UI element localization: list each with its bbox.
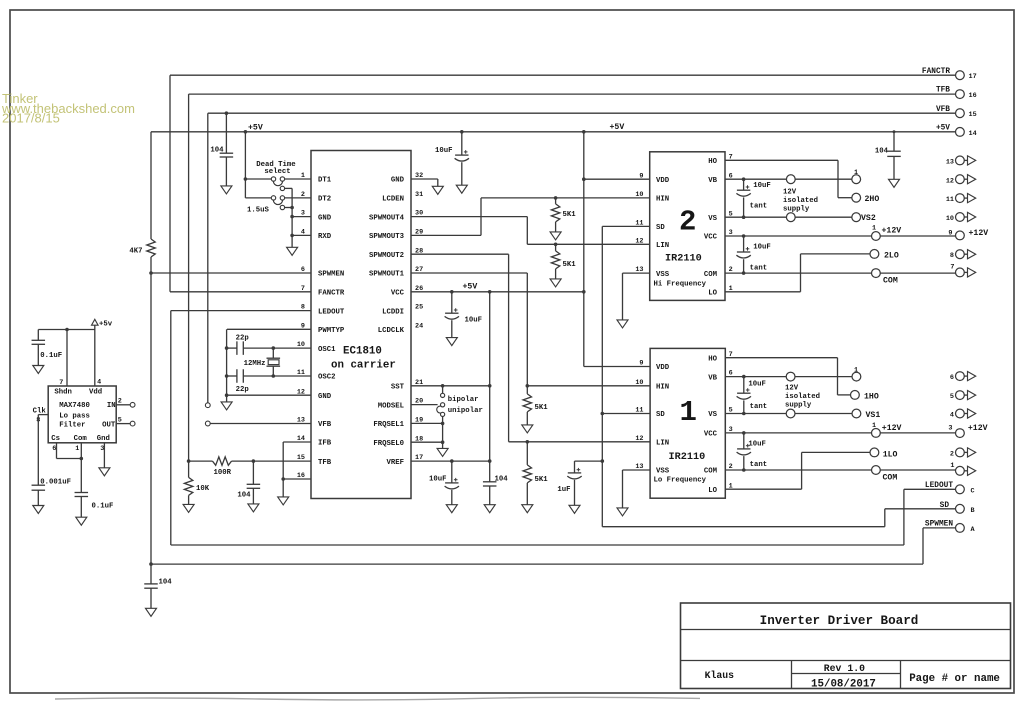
watermark Tinker www.thebackshed.com 2017/8/15	[1, 91, 135, 125]
wire VSS1 to ground	[623, 470, 651, 508]
svg-text:Inverter Driver Board: Inverter Driver Board	[760, 614, 919, 628]
wire DT1 common stub	[284, 187, 292, 189]
terminal 8 circle with no-connect arrow	[956, 250, 976, 259]
wire SPWMEN cap to ground	[150, 588, 152, 608]
svg-text:1HO: 1HO	[864, 392, 879, 401]
svg-text:1: 1	[680, 396, 697, 429]
wire 5K1 HIN1 stub	[526, 386, 528, 394]
IR2110 1 pin 3 VCC labels	[704, 426, 733, 439]
IC U3 IR2110 body	[650, 348, 725, 498]
IC U1 EC1810 body	[311, 151, 411, 499]
switch mode select bipolar/unipolar	[437, 386, 445, 449]
junction VS1 cap	[742, 412, 746, 416]
svg-text:10: 10	[635, 191, 643, 199]
svg-text:0.1uF: 0.1uF	[40, 352, 62, 360]
wire 5K1 LIN2 stub	[555, 244, 557, 251]
EC1810 pin 6 SPWMEN labels	[301, 266, 344, 279]
svg-text:6: 6	[950, 374, 954, 382]
label tant VCC2	[750, 264, 768, 272]
svg-text:5K1: 5K1	[535, 476, 549, 484]
label terminal 14	[969, 130, 977, 138]
svg-text:Klaus: Klaus	[705, 670, 735, 681]
junction LIN1 pulldown	[526, 440, 530, 444]
wire FRQSEL0 row	[411, 441, 443, 443]
svg-text:2HO: 2HO	[865, 195, 880, 204]
junction OSC2 left	[225, 374, 229, 378]
terminal 12 circle with no-connect arrow	[956, 175, 976, 184]
label terminal 1	[950, 462, 954, 470]
junction VCC SST vertical	[488, 290, 492, 294]
junction SPWMEN bottom rail	[149, 562, 153, 566]
junction SD 1uF branch	[601, 459, 605, 463]
junction +5V 10uF cap	[460, 130, 464, 134]
label 4K7	[129, 247, 142, 255]
junction VFB filter cap	[225, 111, 229, 115]
svg-text:Hi Frequency: Hi Frequency	[654, 281, 707, 289]
IR2110 2 pin 5 VS labels	[708, 210, 732, 223]
EC1810 pin 30 SPWMOUT4 labels	[369, 210, 423, 223]
svg-text:6: 6	[52, 445, 56, 453]
terminal 15 circle	[956, 109, 965, 118]
EC1810 pin 14 IFB labels	[297, 435, 332, 448]
IR2110 2 pin 13 VSS labels	[635, 266, 669, 279]
EC1810 pin 12 GND labels	[297, 388, 332, 401]
label 12V isolated supply 1	[785, 384, 820, 409]
svg-text:10: 10	[635, 379, 643, 387]
svg-text:2: 2	[301, 191, 305, 199]
svg-text:1: 1	[75, 445, 79, 453]
capacitor 0.1uF top left	[32, 340, 46, 344]
wire TFB cap branch	[252, 461, 254, 504]
IR2110 2 pin 1 LO labels	[708, 285, 732, 298]
svg-text:2: 2	[679, 206, 696, 239]
svg-text:Com: Com	[74, 435, 88, 443]
svg-text:2LO: 2LO	[884, 251, 899, 260]
svg-text:2017/8/15: 2017/8/15	[2, 110, 60, 125]
svg-text:DT2: DT2	[318, 196, 331, 204]
svg-text:12: 12	[946, 177, 954, 185]
svg-text:SPWMOUT3: SPWMOUT3	[369, 233, 405, 241]
label 10uF VREF cap	[429, 475, 447, 483]
ground 0.001uF	[33, 506, 44, 514]
IR2110 2 pin 7 HO labels	[708, 153, 732, 166]
svg-text:LIN: LIN	[656, 242, 669, 250]
svg-text:7: 7	[950, 263, 954, 271]
svg-text:VB: VB	[708, 177, 717, 185]
label FANCTR at terminal 17	[922, 68, 950, 76]
svg-text:9: 9	[639, 360, 643, 368]
label Filter	[59, 421, 85, 429]
IR2110 2 pin 9 VDD labels	[639, 172, 669, 185]
svg-text:tant: tant	[750, 203, 768, 211]
wire net HO1 to 1HO	[725, 358, 850, 395]
svg-text:GND: GND	[318, 393, 332, 401]
wire OSC1 row	[227, 347, 311, 349]
wire +5V 10uF branch	[461, 132, 463, 185]
svg-text:16: 16	[969, 92, 977, 100]
title block frame	[681, 603, 1011, 689]
svg-text:10uF: 10uF	[465, 317, 483, 325]
junction VREF 10uF	[450, 459, 454, 463]
svg-text:10uF: 10uF	[429, 475, 447, 483]
EC1810 pin 20 MODSEL labels	[378, 398, 423, 411]
label terminal 11	[946, 196, 954, 204]
svg-text:1.5uS: 1.5uS	[247, 207, 270, 215]
IR2110 2 pin 11 SD labels	[635, 220, 665, 233]
junction VCC 10uF	[450, 290, 454, 294]
junction VCC EC1810 +5V	[582, 290, 586, 294]
wire +5V cap branch right	[893, 132, 895, 180]
svg-text:VFB: VFB	[936, 106, 950, 114]
label IR2110 lo	[669, 452, 706, 463]
terminal 3 circle	[956, 429, 965, 438]
terminal 6 circle with no-connect arrow	[956, 372, 976, 381]
ground TFB cap	[248, 504, 259, 512]
label terminal 10	[946, 215, 954, 223]
wire Shdn stub	[66, 330, 68, 387]
wire COM2 row	[725, 272, 956, 274]
ground 0.1uF Com	[76, 517, 87, 525]
label 12V isolated supply 2	[783, 189, 818, 214]
label 100R	[214, 469, 232, 477]
svg-text:MODSEL: MODSEL	[378, 402, 404, 410]
junction COM2 cap	[742, 271, 746, 275]
junction +5V dead-time feed	[244, 130, 248, 134]
label MAX7480	[59, 402, 90, 410]
svg-text:Lo pass: Lo pass	[59, 413, 90, 421]
junction TFB filter cap	[252, 459, 256, 463]
svg-text:11: 11	[946, 196, 954, 204]
svg-text:COM: COM	[704, 468, 718, 476]
resistor 5K1 HIN2	[551, 204, 559, 222]
EC1810 pin 13 VFB labels	[297, 417, 332, 430]
terminal 11 circle with no-connect arrow	[956, 194, 976, 203]
wire 5K1 LIN2 ground stub	[555, 269, 557, 279]
wire GND pin32 stub	[411, 179, 438, 186]
capacitor 10uF tant VCC1	[737, 433, 751, 470]
wire net SPWMOUT2 to LIN1	[411, 254, 650, 442]
svg-text:RXD: RXD	[318, 233, 332, 241]
svg-text:4K7: 4K7	[129, 247, 142, 255]
svg-text:17: 17	[969, 73, 977, 81]
svg-text:VSS: VSS	[656, 271, 670, 279]
wire SST row	[411, 385, 490, 387]
ground 1uF	[569, 505, 580, 513]
ground SPWMEN cap	[146, 608, 157, 616]
svg-text:HIN: HIN	[656, 384, 669, 392]
svg-text:IR2110: IR2110	[665, 254, 702, 265]
IR2110 2 pin 2 COM labels	[704, 266, 733, 279]
svg-text:SPWMEN: SPWMEN	[925, 521, 953, 529]
wire net SPWMOUT4 to LIN2	[411, 217, 650, 245]
svg-text:22p: 22p	[236, 335, 250, 343]
scan artifact squiggle bottom	[55, 697, 700, 700]
junction FRQSEL1	[441, 422, 445, 426]
wire VREF row	[411, 460, 490, 462]
svg-text:5: 5	[118, 417, 122, 425]
label Com	[74, 435, 88, 443]
EC1810 pin 2 DT2 labels	[301, 191, 331, 204]
svg-text:SD: SD	[656, 411, 665, 419]
wire net +12V lo	[725, 432, 955, 434]
wire net LO1 to 1LO	[725, 452, 870, 489]
EC1810 pin 7 FANCTR labels	[301, 285, 345, 298]
label terminal 12	[946, 177, 954, 185]
wire 5K1 HIN2 stub	[555, 198, 557, 204]
label select	[264, 168, 290, 176]
svg-text:FANCTR: FANCTR	[318, 290, 345, 298]
label 1 above VB1 pin	[854, 367, 858, 375]
label +12V hi	[882, 227, 902, 236]
svg-text:10uF: 10uF	[435, 147, 453, 155]
ground 10K	[183, 504, 194, 512]
label 10uF VCC2	[753, 244, 771, 252]
label 104 VREF cap	[495, 475, 509, 483]
svg-text:9: 9	[639, 172, 643, 180]
svg-text:5K1: 5K1	[535, 404, 549, 412]
EC1810 pin 11 OSC2 labels	[297, 369, 336, 382]
junction HIN2 pulldown	[554, 196, 558, 200]
svg-text:GND: GND	[318, 214, 332, 222]
label 10K	[196, 485, 210, 493]
svg-text:FRQSEL1: FRQSEL1	[373, 421, 404, 429]
svg-text:COM: COM	[704, 271, 718, 279]
label 5K1 HIN2	[563, 211, 577, 219]
label MAX7480 pin4	[97, 379, 101, 387]
svg-text:VREF: VREF	[386, 459, 404, 467]
svg-text:COM: COM	[883, 474, 898, 483]
label IN	[107, 402, 116, 410]
label bipolar	[448, 396, 479, 404]
wire 5K1 HIN2 ground stub	[555, 222, 557, 232]
label MAX pin8	[36, 416, 40, 424]
svg-text:+12V: +12V	[882, 227, 902, 236]
svg-text:SST: SST	[391, 384, 405, 392]
svg-text:COM: COM	[883, 277, 898, 286]
svg-text:TFB: TFB	[936, 87, 950, 95]
wire MAX OUT pin5 stub	[116, 423, 130, 425]
junction SD1 row	[601, 412, 605, 416]
svg-text:+12V: +12V	[968, 424, 988, 433]
svg-text:LEDOUT: LEDOUT	[925, 482, 953, 490]
resistor 100R	[213, 457, 232, 465]
label 10uF VCC cap	[465, 317, 483, 325]
svg-text:2: 2	[118, 398, 122, 406]
switch dead-time DT1 contacts	[271, 177, 284, 191]
label Dead Time	[256, 161, 296, 169]
ground IFB pin16	[278, 497, 289, 505]
wire MAX IN pin2 stub	[116, 404, 130, 406]
EC1810 pin 9 PWMTYP labels	[301, 322, 345, 335]
capacitor 104 +5V right	[887, 151, 901, 156]
label 0.1uF top left	[40, 352, 62, 360]
wire +5V main vertical to IR2110s	[584, 132, 650, 367]
svg-text:104: 104	[875, 148, 889, 156]
svg-text:+5V: +5V	[610, 123, 625, 132]
svg-text:10uF: 10uF	[748, 440, 766, 448]
terminal 17 circle	[956, 71, 965, 80]
wire FRQSEL1 row	[411, 422, 443, 424]
svg-text:supply: supply	[783, 206, 810, 214]
svg-text:100R: 100R	[214, 469, 232, 477]
wire net SPWMOUT1 to HIN1	[411, 273, 650, 386]
wire GND pin12 row	[227, 394, 311, 396]
connector COM2 circle	[872, 269, 881, 278]
label SPWMEN at terminal A	[925, 521, 953, 529]
capacitor 10uF tant VREF	[445, 478, 459, 489]
svg-text:VS1: VS1	[866, 411, 881, 420]
connector 2HO circle	[852, 193, 861, 202]
label 1 above +12V lo	[872, 422, 876, 430]
wire 4K7 to SPWMEN rail	[150, 257, 152, 584]
svg-text:24: 24	[415, 323, 423, 331]
svg-text:12V: 12V	[783, 189, 797, 197]
capacitor 22p OSC1	[237, 341, 243, 355]
svg-text:Gnd: Gnd	[97, 435, 110, 443]
svg-text:FANCTR: FANCTR	[922, 68, 950, 76]
capacitor 10uF tant VCC2	[736, 236, 750, 273]
terminal 9 circle	[956, 231, 965, 240]
IR2110 1 pin 7 HO labels	[708, 351, 732, 364]
label tant VB1	[750, 403, 768, 411]
svg-text:Cs: Cs	[51, 435, 60, 443]
terminal C circle	[956, 485, 965, 494]
svg-text:VB: VB	[708, 374, 717, 382]
EC1810 pin 29 SPWMOUT3 labels	[369, 229, 423, 242]
label +5V top centre	[248, 123, 263, 132]
label Klaus	[705, 670, 735, 681]
wire MODSEL row	[411, 404, 438, 406]
svg-text:EC1810: EC1810	[343, 345, 382, 357]
label 5K1 HIN1	[535, 404, 549, 412]
junction VCC1 cap	[742, 431, 746, 435]
junction HIN1 pulldown	[526, 384, 530, 388]
svg-text:tant: tant	[750, 461, 768, 469]
wire VSS2 to ground	[623, 273, 650, 320]
svg-text:select: select	[264, 168, 290, 176]
connector +12V hi circle	[872, 232, 881, 241]
svg-text:HO: HO	[708, 158, 717, 166]
label MAX pin2	[118, 398, 122, 406]
label 1 above +12V hi	[872, 225, 876, 233]
connector 12V supply VB2 circle	[786, 175, 795, 184]
wire VFB cap branch	[225, 113, 227, 186]
ground 0.1uF top left	[33, 366, 44, 374]
svg-text:MAX7480: MAX7480	[59, 402, 90, 410]
wire SPWMEN row	[151, 272, 311, 274]
svg-text:VSS: VSS	[656, 468, 670, 476]
svg-text:104: 104	[210, 146, 224, 154]
label MAX pin5	[118, 417, 122, 425]
terminal 16 circle	[956, 90, 965, 99]
junction SST mode switch	[441, 384, 445, 388]
svg-text:1: 1	[301, 172, 305, 180]
ground 5K1 LIN1	[522, 505, 533, 513]
EC1810 pin 18 FRQSEL0 labels	[373, 435, 423, 448]
label Gnd	[97, 435, 110, 443]
svg-text:1: 1	[872, 422, 876, 430]
svg-text:5: 5	[950, 393, 954, 401]
label 104 TFB cap	[237, 492, 251, 500]
EC1810 pin 17 VREF labels	[386, 454, 423, 467]
terminal 14 circle	[956, 127, 965, 136]
label Inverter Driver Board	[760, 614, 919, 628]
svg-text:Rev 1.0: Rev 1.0	[824, 663, 865, 674]
capacitor 104 VREF	[483, 482, 497, 486]
wire VFB row	[210, 423, 311, 425]
label OUT	[102, 421, 116, 429]
svg-text:IR2110: IR2110	[669, 452, 706, 463]
label MAX7480 pin7	[59, 379, 63, 387]
svg-text:0.1uF: 0.1uF	[92, 502, 114, 510]
wire GND pin3 stub	[292, 216, 311, 218]
svg-text:9: 9	[948, 229, 952, 237]
junction TFB vertical	[187, 459, 191, 463]
wire VS2 row	[725, 216, 852, 218]
wire net LEDOUT	[171, 311, 956, 545]
svg-text:+5v: +5v	[99, 320, 113, 328]
ground 10uF top cap	[456, 185, 467, 193]
label 2HO	[865, 195, 880, 204]
wire net VFB top rail	[208, 113, 956, 403]
label +12V lo	[882, 424, 902, 433]
connector 12V supply VS2 circle	[786, 213, 795, 222]
wire net +12V hi	[725, 235, 956, 237]
label COM1	[883, 474, 898, 483]
svg-text:1LO: 1LO	[883, 450, 898, 459]
svg-text:12: 12	[635, 435, 643, 443]
junction dead-time common	[290, 206, 294, 210]
IR2110 1 pin 6 VB labels	[708, 370, 732, 383]
wire PWMTYP row	[227, 329, 311, 395]
IR2110 1 pin 12 LIN labels	[635, 435, 669, 448]
label 12MHz	[244, 360, 266, 368]
label 1HO	[864, 392, 879, 401]
svg-text:+12V: +12V	[882, 424, 902, 433]
label terminal B	[971, 507, 975, 515]
wire +5V to 4K7	[150, 132, 152, 239]
label MAX pin6	[52, 445, 56, 453]
EC1810 pin 31 LCDEN labels	[382, 191, 423, 204]
svg-text:1: 1	[872, 225, 876, 233]
wire Gnd pin3 stub	[103, 443, 105, 468]
ground OSC chain	[221, 402, 232, 410]
label terminal C	[971, 487, 975, 495]
ground pin32	[432, 186, 443, 194]
svg-text:tant: tant	[750, 264, 768, 272]
label Page # or name	[909, 673, 1000, 685]
wire net HO2 to 2HO	[725, 160, 852, 197]
svg-text:+5V: +5V	[936, 124, 950, 132]
label terminal 7	[950, 263, 954, 271]
wire 10K stub	[188, 461, 190, 477]
junction OSC1 crystal	[272, 346, 276, 350]
label TFB at terminal 16	[936, 87, 950, 95]
ground VREF 10uF	[446, 505, 457, 513]
wire +5V to dead-time select	[244, 132, 246, 198]
svg-text:tant: tant	[750, 403, 768, 411]
label 5K1 LIN2	[563, 261, 577, 269]
junction COM1 cap	[742, 468, 746, 472]
label 10uF VB2	[753, 182, 771, 190]
svg-text:10uF: 10uF	[748, 380, 766, 388]
ground 5K1 HIN2	[550, 232, 561, 240]
node DT2 select row	[245, 197, 311, 199]
IR2110 2 pin 12 LIN labels	[635, 237, 669, 250]
wire RXD pin4 stub	[292, 234, 311, 236]
svg-text:VFB: VFB	[318, 421, 332, 429]
label 104 SPWMEN cap	[159, 578, 173, 586]
